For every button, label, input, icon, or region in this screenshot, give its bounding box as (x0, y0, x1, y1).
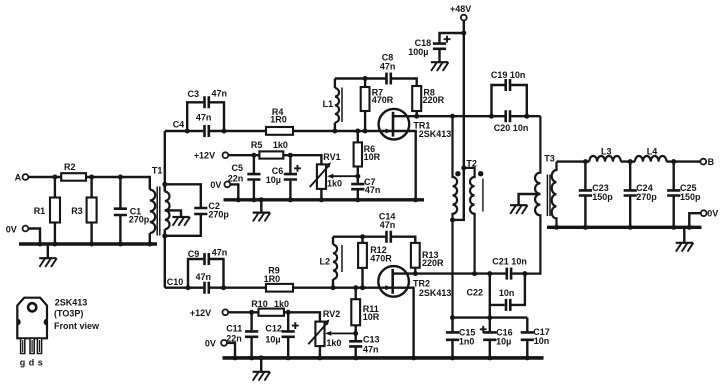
package right notch (44, 319, 47, 326)
svg-text:470R: 470R (372, 95, 394, 105)
node railout C23 (583, 225, 588, 230)
node rail2 C15 (450, 355, 455, 360)
node C19 left (489, 114, 494, 119)
node rail2 gnd (259, 355, 264, 360)
svg-text:10µ: 10µ (265, 335, 280, 345)
svg-text:470R: 470R (370, 253, 392, 263)
resistor R4 1R0 (266, 107, 293, 135)
node L2 bottom (331, 285, 336, 290)
node railout T3 (554, 225, 559, 230)
node TR2 source rail (411, 355, 416, 360)
resistor R5 1k0 (251, 140, 288, 159)
ground upper rail (253, 201, 271, 221)
svg-text:B: B (708, 157, 715, 167)
inductor L1 core (341, 88, 343, 123)
wire T1 secondary top to gate line (164, 131, 166, 184)
capacitor C13 47n (349, 333, 379, 356)
svg-text:T3: T3 (544, 153, 555, 163)
terminal +48V (450, 4, 471, 21)
svg-text:C9: C9 (188, 249, 200, 259)
terminal +12V upper (194, 151, 229, 161)
node RV1 wiper junction (355, 174, 360, 179)
ground T3 center tap (510, 205, 528, 214)
node C22 right (522, 271, 527, 276)
node rail1 C5 (251, 197, 256, 202)
capacitor C14 47n (379, 212, 396, 243)
wire 0V lower to rail (227, 343, 235, 356)
node T1 secondary bottom (162, 233, 167, 238)
wire T1 top to C2 (165, 184, 201, 207)
node C9 left (186, 285, 191, 290)
node T2 phase dot right (478, 171, 483, 176)
node R5 left (251, 153, 256, 158)
wire RV1 wiper (327, 174, 356, 179)
resistor R10 1k0 (251, 299, 289, 316)
node C3 left (185, 129, 190, 134)
svg-text:C21 10n: C21 10n (492, 257, 527, 267)
svg-text:(TO3P): (TO3P) (54, 308, 83, 318)
node C18 branch (461, 31, 466, 36)
svg-text:150p: 150p (680, 192, 701, 202)
svg-text:270p: 270p (636, 192, 657, 202)
capacitor C6 10u (266, 155, 301, 198)
terminal 0V upper (210, 180, 230, 190)
svg-text:1R0: 1R0 (270, 115, 287, 125)
svg-text:1k0: 1k0 (327, 179, 342, 189)
svg-text:47n: 47n (363, 345, 379, 355)
node R6 top (355, 129, 360, 134)
node T2 center junction (461, 165, 466, 170)
node C22 left (487, 271, 492, 276)
transformer T3 primary winding (525, 116, 541, 273)
package caption (54, 297, 100, 331)
capacitor C19 10n loop (491, 70, 527, 116)
node TR2 drain R13 (413, 271, 418, 276)
svg-text:270p: 270p (208, 209, 229, 219)
capacitor C8 47n (380, 53, 396, 85)
capacitor C3 47n loop (187, 89, 227, 131)
transformer T2 core (482, 179, 484, 212)
capacitor C24 270p (624, 162, 658, 228)
svg-text:1k0: 1k0 (274, 299, 289, 309)
node R5 right (288, 153, 293, 158)
transistor TR2 2SK413 (378, 266, 451, 358)
node TR1 drain T2 (450, 114, 455, 119)
resistor R7 470R (361, 79, 394, 132)
capacitor C17 10n (521, 318, 550, 358)
wire TR1 drain line (417, 115, 541, 117)
svg-text:C5: C5 (232, 163, 244, 173)
svg-text:1R0: 1R0 (264, 274, 281, 284)
svg-text:R10: R10 (251, 299, 268, 309)
wire upper top line (335, 79, 417, 87)
node rail T1 (147, 242, 152, 247)
node railout C24 (628, 225, 633, 230)
node rail2 C16 (487, 355, 492, 360)
potentiometer RV2 1k0 (308, 309, 341, 356)
package leg s (37, 338, 41, 353)
svg-text:C10: C10 (167, 277, 184, 287)
transformer T2 right winding (464, 168, 475, 274)
svg-text:C20 10n: C20 10n (494, 123, 529, 133)
ground lower rail (253, 360, 271, 381)
node rail1 0V (236, 197, 241, 202)
node C25 top (671, 159, 676, 164)
svg-text:C13: C13 (363, 335, 380, 345)
node rail C1 (118, 242, 123, 247)
svg-text:R3: R3 (71, 206, 83, 216)
node TR1 drain R8 (414, 114, 419, 119)
svg-text:47n: 47n (196, 112, 212, 122)
inductor L2 (320, 237, 338, 288)
node R7 top (363, 76, 368, 81)
resistor R1 (34, 177, 60, 242)
svg-text:10n: 10n (499, 288, 515, 298)
node rail2 0V (233, 355, 238, 360)
svg-text:C19 10n: C19 10n (491, 70, 526, 80)
node rail 0V (38, 242, 43, 247)
terminal 0V input (6, 225, 29, 235)
resistor R8 220R (412, 86, 444, 116)
node R7 bottom (363, 129, 368, 134)
wire 0V upper to rail (230, 184, 238, 198)
potentiometer RV1 1k0 (310, 152, 342, 198)
capacitor C20 10n (494, 110, 529, 133)
svg-text:d: d (29, 358, 35, 368)
transformer T1 primary winding (150, 190, 155, 243)
node railout 0V (687, 225, 692, 230)
svg-text:47n: 47n (212, 89, 228, 99)
terminal 0V lower (205, 339, 227, 349)
wire T3 center tap (519, 194, 541, 205)
svg-text:270p: 270p (129, 215, 150, 225)
node rail2 C12 (286, 355, 291, 360)
upper bias ground rail (224, 198, 425, 201)
wire TR2 drain line (415, 272, 525, 274)
capacitor C23 150p (579, 162, 613, 228)
resistor R11 10R (351, 288, 380, 334)
terminal B output (700, 157, 714, 167)
node T2 left bottom (450, 217, 455, 222)
package left notch (17, 319, 20, 326)
node rail R3 (89, 242, 94, 247)
resistor R9 1R0 (264, 266, 293, 292)
svg-text:47n: 47n (380, 61, 396, 71)
node railout C25 (671, 225, 676, 230)
svg-text:L1: L1 (323, 99, 334, 109)
terminal +12V lower (190, 308, 228, 318)
wire output top line (557, 160, 701, 162)
wire +12V line upper (228, 155, 321, 164)
node C9 right (221, 285, 226, 290)
svg-text:TR2: TR2 (413, 278, 430, 288)
node rail2 C13 (353, 355, 358, 360)
node TR2 drain T2 (472, 271, 477, 276)
node rail1 RV1 (319, 197, 324, 202)
node C1 top junction (118, 175, 123, 180)
svg-text:47n: 47n (196, 272, 212, 282)
wire T1 center tap to ground (165, 210, 181, 216)
svg-text:T1: T1 (152, 166, 163, 176)
svg-text:L3: L3 (601, 146, 612, 156)
node C19 right (524, 114, 529, 119)
transformer T1 core (157, 187, 160, 236)
svg-text:10n: 10n (534, 336, 550, 346)
output ground rail (547, 226, 702, 229)
capacitor C1 270p (114, 177, 150, 242)
capacitor C18 100u (408, 36, 450, 62)
ground T1 center tap (172, 217, 190, 226)
transformer T2 left winding (453, 116, 458, 317)
svg-text:R5: R5 (251, 140, 263, 150)
capacitor C4 47n (173, 112, 212, 137)
wire upper gate line (165, 130, 392, 132)
node C16 top (487, 315, 492, 320)
svg-text:47n: 47n (212, 248, 228, 258)
svg-text:220R: 220R (422, 258, 444, 268)
package mounting hole (28, 303, 36, 311)
input ground rail (19, 242, 157, 246)
svg-text:+12V: +12V (194, 151, 215, 161)
svg-text:s: s (38, 358, 43, 368)
svg-text:L2: L2 (320, 257, 331, 267)
svg-text:100µ: 100µ (408, 47, 428, 57)
transformer T2 label (466, 159, 477, 169)
ground input rail (39, 246, 57, 267)
svg-text:C22: C22 (467, 288, 484, 298)
svg-text:R1: R1 (34, 206, 46, 216)
wire RV2 wiper (325, 331, 354, 336)
node C3 right (222, 129, 227, 134)
node R12 top (360, 234, 365, 239)
svg-text:L4: L4 (647, 146, 658, 156)
svg-text:150p: 150p (592, 192, 613, 202)
wire C18 branch (440, 33, 464, 42)
node rail1 gnd (259, 197, 264, 202)
ground output rail (676, 229, 694, 252)
wire lower gate line (165, 287, 392, 289)
svg-text:0V: 0V (210, 180, 221, 190)
node R11 top (353, 285, 358, 290)
svg-text:1k0: 1k0 (273, 140, 288, 150)
wire decoupling junction line (453, 316, 528, 318)
package leg d (30, 338, 34, 353)
pin labels g d s (20, 358, 43, 368)
ground C18 (431, 62, 449, 71)
node input junction (52, 175, 57, 180)
svg-text:C4: C4 (173, 119, 185, 129)
transformer T3 core (547, 175, 550, 217)
node C23 top (583, 159, 588, 164)
transistor TR1 2SK413 (379, 109, 452, 198)
wire 0V output to rail (689, 213, 701, 227)
svg-text:A: A (15, 173, 22, 183)
node R10 right (286, 310, 291, 315)
svg-text:10µ: 10µ (266, 175, 281, 185)
node rail R1 (52, 242, 57, 247)
terminal 0V output (701, 209, 718, 219)
svg-text:g: g (20, 358, 26, 368)
svg-text:2SK413: 2SK413 (55, 297, 88, 307)
node R2 right junction (89, 175, 94, 180)
capacitor C22 10n loop (467, 274, 525, 311)
svg-text:22n: 22n (228, 173, 244, 183)
transformer T1 label (152, 166, 163, 176)
svg-text:47n: 47n (365, 185, 381, 195)
wire 0V to input rail (28, 229, 40, 243)
capacitor C16 10u (480, 305, 513, 358)
svg-text:RV2: RV2 (323, 309, 340, 319)
svg-text:47n: 47n (380, 220, 396, 230)
transformer T3 secondary winding (552, 162, 557, 228)
node L1 bottom (332, 129, 337, 134)
node C15 top (450, 315, 455, 320)
resistor R3 (71, 177, 96, 242)
svg-text:Front view: Front view (54, 321, 100, 331)
resistor R12 470R (358, 237, 392, 288)
node T1 secondary top (162, 182, 167, 187)
inductor L2 core (341, 245, 343, 272)
capacitor C11 22n (226, 312, 258, 356)
svg-text:C12: C12 (265, 323, 282, 333)
capacitor C15 1n0 (446, 318, 476, 358)
node rail1 C7 (355, 197, 360, 202)
wire input line to T1 (92, 177, 150, 190)
svg-text:10µ: 10µ (496, 337, 511, 347)
inductor L1 (323, 79, 339, 132)
capacitor C25 150p (667, 162, 701, 228)
inductor L3 (589, 146, 620, 161)
capacitor C10 47n (167, 272, 211, 294)
capacitor C9 47n loop (188, 248, 228, 288)
node TR1 source rail (413, 197, 418, 202)
wire +12V line lower (228, 312, 320, 321)
svg-text:+48V: +48V (450, 4, 471, 14)
capacitor C12 10u (265, 312, 298, 356)
svg-text:220R: 220R (423, 95, 445, 105)
wire T1 bottom to lower gate (164, 236, 166, 288)
svg-text:10R: 10R (363, 312, 380, 322)
svg-text:0V: 0V (707, 209, 718, 219)
capacitor C21 10n (492, 257, 527, 280)
node RV2 wiper junction (353, 331, 358, 336)
svg-text:RV1: RV1 (323, 152, 340, 162)
capacitor C7 47n (351, 176, 380, 198)
resistor R6 10R (354, 131, 381, 176)
wire +48V line (453, 21, 464, 220)
wire lower top line (333, 237, 415, 243)
node T2 phase dot left (455, 171, 460, 176)
package outline 2SK413 TO3P (17, 298, 47, 339)
wire A to R2 (28, 176, 54, 178)
svg-text:C11: C11 (226, 323, 242, 333)
svg-text:1n0: 1n0 (459, 337, 475, 347)
svg-text:0V: 0V (205, 339, 216, 349)
svg-text:0V: 0V (6, 225, 17, 235)
node R12 bottom (360, 285, 365, 290)
resistor R2 (55, 162, 92, 181)
svg-text:2SK413: 2SK413 (419, 288, 452, 298)
lower ground rail (223, 356, 544, 360)
svg-text:R2: R2 (64, 162, 76, 172)
node C24 top (628, 159, 633, 164)
package leg g (21, 338, 25, 353)
svg-text:1k0: 1k0 (326, 338, 341, 348)
transformer T1 secondary winding (165, 184, 170, 236)
capacitor C2 270p (165, 201, 230, 236)
transformer T3 label (544, 153, 555, 163)
node rail2 C17 (525, 355, 530, 360)
node rail2 C11 (249, 355, 254, 360)
node R10 left (249, 310, 254, 315)
inductor L4 (635, 146, 666, 161)
svg-text:10R: 10R (364, 152, 381, 162)
resistor R13 220R (411, 243, 444, 274)
node rail2 RV2 (317, 355, 322, 360)
svg-text:+12V: +12V (190, 308, 211, 318)
input terminal A (15, 173, 29, 183)
capacitor C5 22n (228, 155, 261, 198)
node rail1 C6 (288, 197, 293, 202)
svg-text:C3: C3 (188, 89, 200, 99)
svg-text:2SK413: 2SK413 (419, 129, 452, 139)
